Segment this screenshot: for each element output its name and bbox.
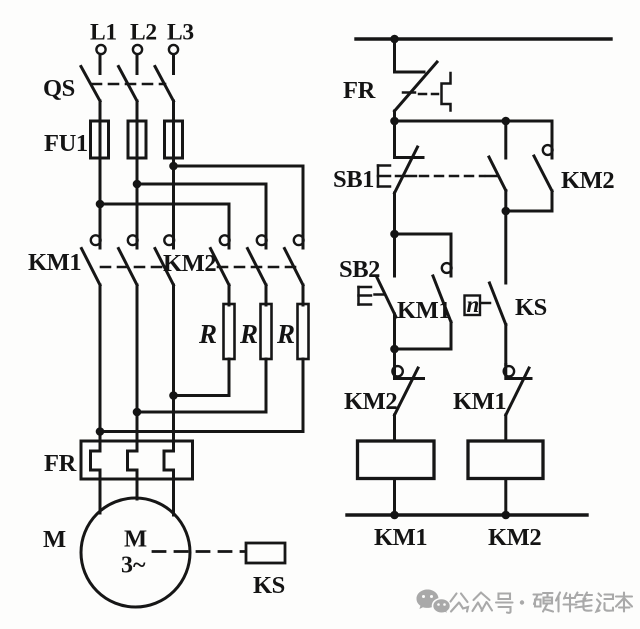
svg-text:FR: FR <box>343 77 376 104</box>
button SB2 actuator <box>359 287 385 305</box>
thermal relay FR heater element pole 3 <box>164 451 174 479</box>
FR reset linkage dashed <box>419 93 438 96</box>
node junction bottom bus KM2 <box>502 511 511 520</box>
char 笔 <box>575 593 592 611</box>
char 本 <box>616 593 632 612</box>
contactor KM1 NO self-hold contact <box>395 234 452 349</box>
wire resistor a to phase3 <box>174 359 230 396</box>
watermark text 公众号·硬件笔记本 <box>451 593 633 613</box>
svg-text:L2: L2 <box>130 20 157 46</box>
wire KM1 pole3 down to FR <box>172 285 175 451</box>
button SB1 actuator <box>378 166 390 187</box>
node L2 terminal <box>130 20 157 55</box>
char 众 <box>473 593 493 612</box>
wire QS to FU1 pole 3 <box>172 101 175 122</box>
node L1 terminal <box>90 20 117 55</box>
svg-text:FR: FR <box>44 450 77 477</box>
fuse FU1 pole 1 <box>91 121 109 158</box>
speed relay n symbol box <box>465 292 491 317</box>
svg-text:R: R <box>198 319 217 349</box>
svg-text:KM1: KM1 <box>397 297 450 324</box>
svg-text:KM2: KM2 <box>163 250 216 277</box>
wire L2 to QS <box>136 55 139 74</box>
SB1 linkage dashed <box>420 175 484 178</box>
wire FR to node row <box>393 111 396 121</box>
wire QS to FU1 pole 2 <box>136 101 139 122</box>
wire phase3 fuse to KM1 contact <box>172 158 175 233</box>
switch QS pole 1 blade <box>81 67 100 102</box>
svg-text:KM1: KM1 <box>374 524 427 551</box>
contactor KM2 linkage dashed <box>218 266 299 269</box>
wire SB1 to SB2 node <box>393 193 396 234</box>
svg-text:R: R <box>239 319 258 349</box>
svg-text:FU1: FU1 <box>44 130 88 157</box>
wire KM2 pole4 to resistor <box>228 285 231 305</box>
node junction phase2 feed <box>133 180 142 189</box>
switch QS linkage dashed <box>92 83 165 86</box>
thermal relay FR heater box <box>81 441 193 479</box>
wire resistor c to phase1 <box>100 359 303 432</box>
contactor KM2 main contact pole 5 <box>248 233 267 285</box>
svg-text:n: n <box>467 292 480 317</box>
contactor KM1 main contact pole 1 <box>82 233 101 285</box>
FR reset button symbol <box>442 73 451 111</box>
wire top supply bus <box>356 37 611 40</box>
wire phase1 fuse to KM1 contact <box>99 158 102 233</box>
resistor R phase a <box>198 304 235 359</box>
shaft link dashed to KS <box>153 550 244 553</box>
node junction SB2 top <box>390 230 399 239</box>
svg-text:KM2: KM2 <box>488 524 541 551</box>
thermal relay FR heater element pole 2 <box>128 451 138 479</box>
svg-text:3~: 3~ <box>121 553 146 579</box>
wire coil KM2 to bottom bus <box>504 479 507 516</box>
wire brake branch down to KS <box>504 211 507 283</box>
wire phase2 fuse to KM1 contact <box>136 158 139 233</box>
node junction branch B tap <box>502 117 511 126</box>
wire bus to FR contact <box>393 39 396 72</box>
contactor KM1 main contact pole 2 <box>119 233 138 285</box>
wire KM2 pole6 to resistor <box>302 285 305 305</box>
wire feed phase1 to KM2 pole 4 <box>100 204 229 233</box>
switch QS pole 3 blade <box>155 67 174 102</box>
svg-text:KM2: KM2 <box>344 388 397 415</box>
svg-text:KS: KS <box>515 294 547 321</box>
contactor KM1 linkage dashed <box>101 266 161 269</box>
svg-text:R: R <box>276 319 295 349</box>
node junction resistor c / phase1 <box>96 427 105 436</box>
wire feed phase2 to KM2 pole 5 <box>137 184 266 233</box>
button SB1 NC contact <box>395 121 424 193</box>
fuse FU1 pole 2 <box>128 121 146 158</box>
speed relay KS body <box>246 543 285 563</box>
contactor KM2 NC interlock contact <box>392 349 423 441</box>
watermark logo wechat <box>417 590 451 615</box>
contactor KM1 NC interlock contact <box>504 365 531 442</box>
wire bottom supply bus <box>347 513 587 516</box>
node junction phase3 feed <box>169 162 178 171</box>
wire feed phase3 to KM2 pole 6 <box>174 166 304 233</box>
char 硬 <box>534 593 554 612</box>
resistor R phase c <box>276 304 309 359</box>
button SB2 NO contact <box>377 234 397 349</box>
node junction resistor a / phase3 <box>169 391 178 400</box>
wire KM1 pole2 down to FR <box>136 285 139 451</box>
node junction brake branch <box>502 207 511 216</box>
svg-text:KM1: KM1 <box>453 388 506 415</box>
wire KM2 self-hold bottom <box>506 210 552 213</box>
wire FR to motor phase1 <box>99 479 102 513</box>
wire coil KM1 to bottom bus <box>393 479 396 516</box>
wire FR to motor phase3 <box>172 479 175 515</box>
wire L1 to QS <box>99 55 102 74</box>
svg-text:SB1: SB1 <box>333 166 374 193</box>
wire node row horizontal <box>395 120 553 123</box>
contactor KM2 NO self-hold contact <box>534 121 553 211</box>
svg-text:KM1: KM1 <box>28 249 81 276</box>
svg-text:SB2: SB2 <box>339 256 380 283</box>
svg-text:KM2: KM2 <box>561 167 614 194</box>
wire L3 to QS <box>172 55 175 74</box>
svg-text:M: M <box>43 526 66 553</box>
button SB1 NO contact (brake branch) <box>486 121 506 211</box>
resistor R phase b <box>239 304 272 359</box>
contactor KM2 main contact pole 4 <box>211 233 230 285</box>
node junction top bus tap <box>390 35 399 44</box>
svg-text:M: M <box>124 526 147 553</box>
thermal relay FR NC contact <box>395 62 438 111</box>
speed relay KS NO contact <box>490 283 506 365</box>
coil KM2 <box>468 441 543 479</box>
wire KM1 pole1 down to FR <box>99 285 102 451</box>
wire FR to motor phase2 <box>136 479 139 499</box>
char 件 <box>556 593 577 612</box>
wire KM2 pole5 to resistor <box>265 285 268 305</box>
thermal relay FR heater element pole 1 <box>91 451 101 479</box>
svg-text:KS: KS <box>253 572 285 599</box>
wire QS to FU1 pole 1 <box>99 101 102 122</box>
node junction phase1 feed <box>96 200 105 209</box>
switch QS pole 2 blade <box>119 67 138 102</box>
svg-text:L3: L3 <box>167 20 194 46</box>
node junction under FR <box>390 117 399 126</box>
svg-text:L1: L1 <box>90 20 117 46</box>
char 号 <box>496 594 513 613</box>
node junction bottom bus KM1 <box>390 511 399 520</box>
wire resistor b to phase2 <box>137 359 266 412</box>
motor M circle <box>81 498 190 607</box>
char 记 <box>597 594 614 612</box>
svg-text:QS: QS <box>43 75 75 102</box>
node L3 terminal <box>167 20 194 55</box>
char 公 <box>451 594 469 612</box>
fuse FU1 pole 3 <box>165 121 183 158</box>
contactor KM1 main contact pole 3 <box>155 233 174 285</box>
coil KM1 <box>358 441 435 479</box>
char · <box>520 600 524 604</box>
node junction resistor b / phase2 <box>133 408 142 417</box>
node junction SB2 bottom <box>390 345 399 354</box>
contactor KM2 main contact pole 6 <box>285 233 304 285</box>
